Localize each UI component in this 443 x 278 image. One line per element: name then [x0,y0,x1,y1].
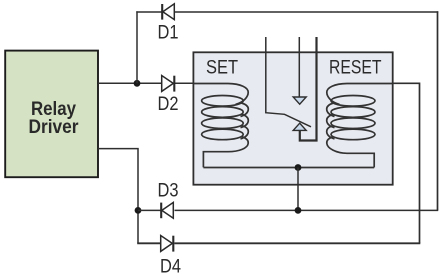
junction dot on bottom bus [295,164,302,171]
relay box K1 [193,52,392,184]
wire: driver output 1 to relay box (D2 line) [98,82,162,84]
wire: D3 line [138,209,161,211]
relay contact: pole lead [266,37,311,127]
wire: internal bottom bus [203,167,374,169]
svg-text:RESET: RESET [329,58,382,79]
svg-text:D1: D1 [158,23,179,44]
wire: right vertical from D1 line down to D3 line [437,11,439,210]
junction dot on D3 line [135,207,142,214]
diode D3 [161,202,173,218]
junction dot at D1/D2 branch [134,80,141,87]
svg-text:Driver: Driver [29,117,80,138]
diode D2 [162,76,175,92]
wire: vertical up to D1 line [136,11,138,83]
wire: center tap down to D3 line [297,168,299,211]
coil SET (L1) [193,84,248,168]
svg-text:SET: SET [206,58,238,79]
contact arrow down [293,97,306,104]
wire: driver output 2 going down left side [98,149,138,244]
junction dot on D3 line center [295,207,302,214]
Relay Driver block U1 [5,51,98,178]
coil RESET (L2) [327,84,394,168]
contact arrow up [293,123,306,130]
wire: D4 line [137,242,161,244]
diode D1 [162,4,174,20]
svg-text:D3: D3 [158,181,179,202]
wire: top D1 line [136,11,162,13]
svg-text:D2: D2 [158,94,179,115]
wire: RESET coil to right vertical down to D4 line [393,83,419,243]
diode D4 [161,236,174,252]
svg-text:D4: D4 [160,257,181,278]
relay contact: NO lead with up arrow [300,37,317,141]
relay contact: NC lead with down arrow [298,37,300,97]
